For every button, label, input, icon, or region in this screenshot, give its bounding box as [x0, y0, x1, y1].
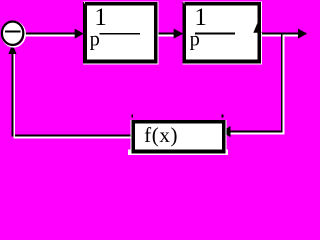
- summing junction circle: [2, 22, 23, 45]
- f(x) white fringe left: [131, 120, 132, 154]
- block U1 corner notch: [84, 2, 85, 3]
- block U1 (integrator 1/p): [83, 2, 158, 63]
- svg-text:f(x): f(x): [144, 123, 178, 147]
- wire: U2 output line: [260, 33, 306, 35]
- arrowhead into U2: [174, 29, 184, 39]
- arrowhead into summing junction: [8, 44, 16, 54]
- summing junction white halo: [2, 22, 25, 47]
- block U1 white fringe bottom: [83, 63, 158, 64]
- block U2 corner notch: [183, 2, 184, 3]
- wire: circle to U1: [23, 33, 75, 35]
- takeoff up-arrow at U2 right border: [253, 23, 261, 33]
- svg-text:p: p: [90, 29, 100, 51]
- wire: white fringe under right bottom horizontal: [230, 133, 285, 135]
- minus sign: [5, 31, 20, 33]
- svg-text:1: 1: [94, 4, 107, 31]
- f(x) white fringe right: [225, 120, 226, 154]
- f(x) white halo below: [128, 150, 228, 156]
- arrowhead into f(x) block: [222, 126, 231, 137]
- block U1 white fringe right: [157, 2, 160, 64]
- block U1 white fringe top: [83, 0, 158, 3]
- wire: white fringe under circle-to-U1 line: [24, 35, 75, 37]
- wire: left bottom horizontal (f(x) output): [11, 135, 135, 137]
- fraction bar U1: [100, 33, 140, 35]
- wire: white fringe right of left vertical: [13, 54, 15, 136]
- block U2 (integrator 1/p): [183, 2, 261, 63]
- svg-text:p: p: [190, 29, 200, 51]
- block U2 white fringe top: [183, 0, 262, 3]
- arrowhead into U1: [75, 29, 84, 39]
- wire: white fringe right of branch vertical: [283, 36, 285, 133]
- block U2 white fringe bottom: [183, 63, 262, 64]
- block U2 white fringe right: [261, 2, 262, 64]
- fraction bar U2: [195, 33, 235, 35]
- wire: left vertical feedback: [11, 53, 13, 135]
- wire: right branch vertical: [281, 34, 283, 133]
- wire: U1 to U2: [157, 33, 174, 35]
- f(x) corner dots: [131, 114, 133, 117]
- wire: white fringe under left bottom horizontal: [13, 136, 133, 138]
- wire: white fringe under U1-to-U2 line: [158, 35, 174, 37]
- block U3 f(x): [132, 120, 226, 154]
- wire: right bottom horizontal (into f(x)): [229, 131, 283, 133]
- output arrowhead: [298, 29, 307, 39]
- wire: white fringe under output line: [261, 35, 299, 37]
- svg-text:1: 1: [194, 4, 207, 31]
